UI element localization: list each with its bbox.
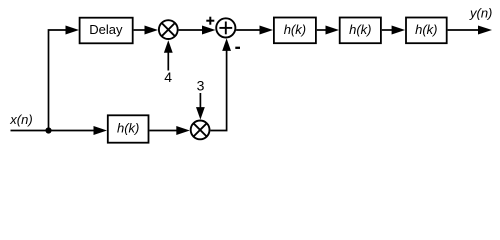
- wire Delay to multiplier M1: [134, 26, 158, 35]
- wire M2 up to summer minus input: [210, 38, 231, 130]
- svg-text:h(k): h(k): [117, 121, 139, 136]
- wire branch up to Delay: [49, 26, 80, 131]
- multiplier M2: [191, 120, 210, 139]
- multiplier M1: [159, 20, 178, 39]
- wire gain 4 arrow up into M1: [164, 40, 173, 70]
- wire H1 to H2: [317, 26, 339, 35]
- minus sign label at summer: [235, 47, 240, 49]
- block H4 h(k) lower path: [108, 115, 149, 142]
- block H3 h(k): [406, 18, 447, 44]
- wire summer to block H1: [236, 26, 273, 35]
- wire H2 to H3: [382, 26, 405, 35]
- wire input x(n): [11, 126, 108, 135]
- block Delay: [80, 18, 133, 44]
- wire H4 to multiplier M2: [149, 126, 189, 135]
- plus sign label at summer: [206, 17, 214, 25]
- svg-text:h(k): h(k): [349, 22, 371, 37]
- node junction on input wire: [45, 127, 51, 133]
- block H2 h(k): [340, 18, 381, 44]
- wire output y(n): [448, 26, 492, 35]
- svg-text:3: 3: [197, 78, 205, 94]
- summer U1: [216, 18, 235, 37]
- svg-text:4: 4: [164, 69, 172, 85]
- svg-text:x(n): x(n): [9, 112, 32, 127]
- block H1 h(k): [274, 18, 316, 44]
- svg-text:y(n): y(n): [469, 6, 492, 21]
- svg-text:Delay: Delay: [89, 22, 123, 37]
- svg-text:h(k): h(k): [284, 22, 306, 37]
- wire gain 3 arrow down into M2: [196, 93, 205, 120]
- wire M1 to summer U1: [179, 26, 216, 35]
- svg-text:h(k): h(k): [415, 22, 437, 37]
